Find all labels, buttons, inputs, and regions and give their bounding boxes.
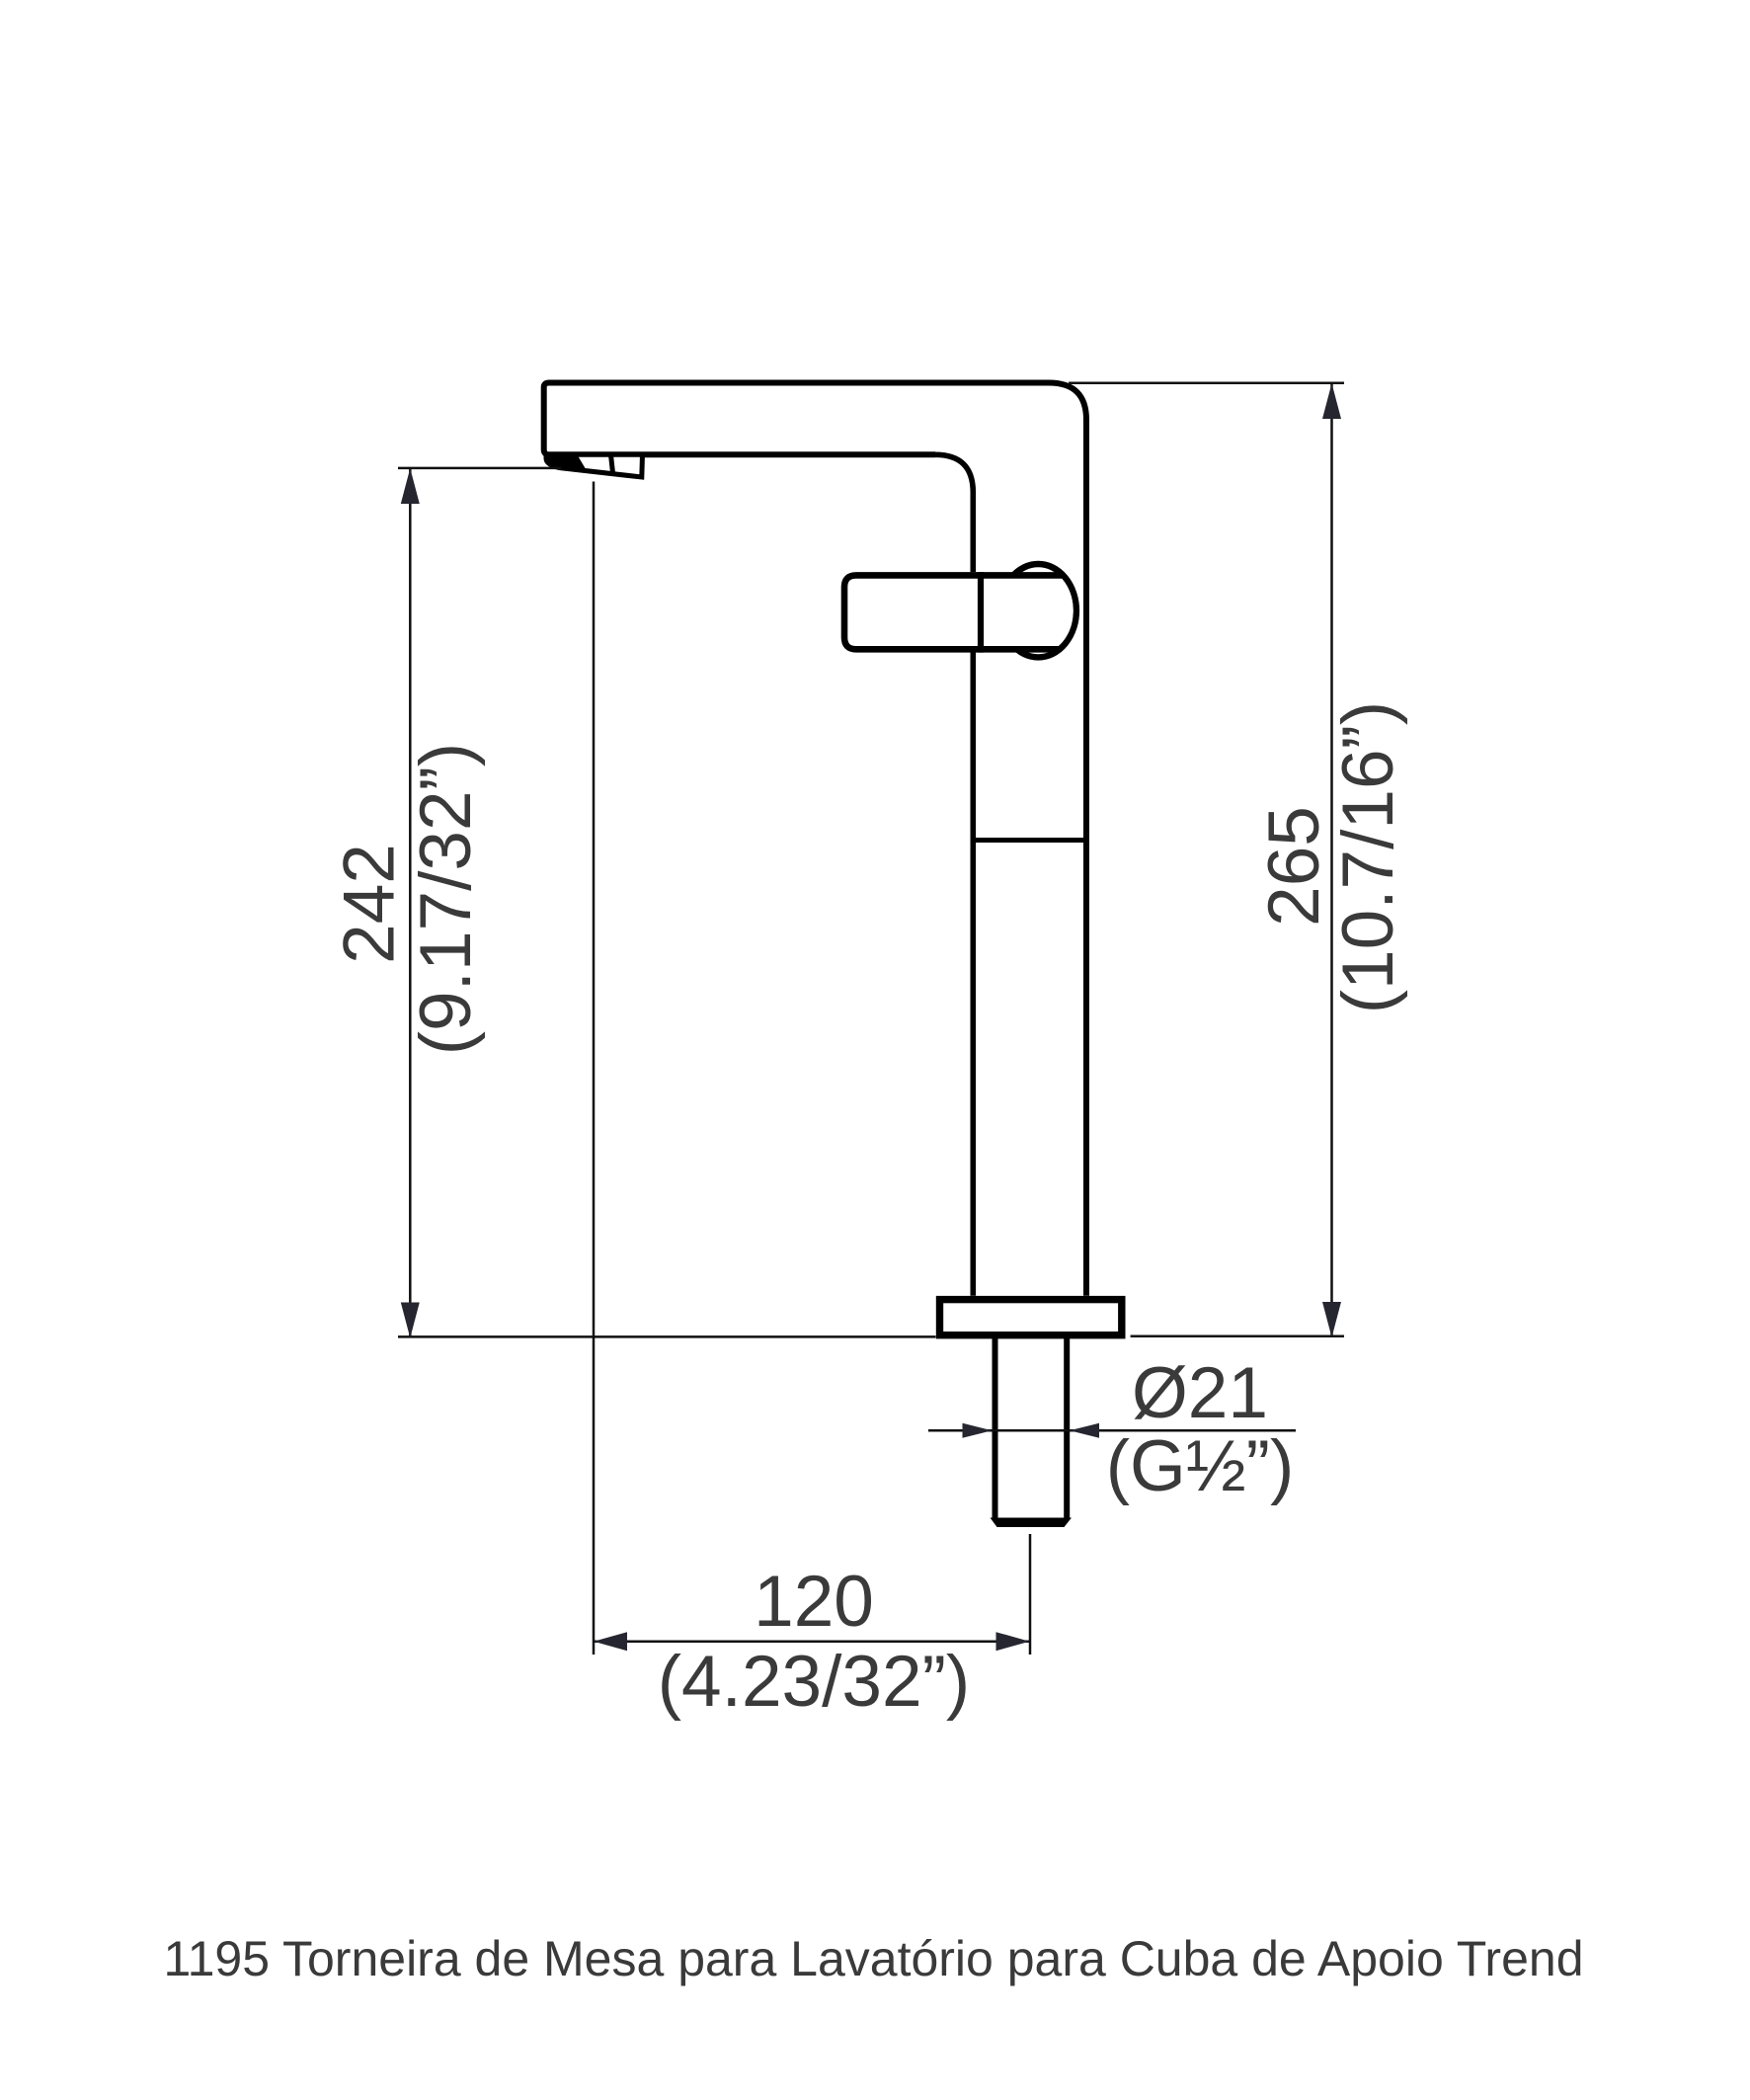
threaded shank pipe bottom [991,1518,1073,1528]
dimension line 242 [409,468,412,1338]
arrowhead diameter left [963,1423,993,1438]
threaded shank pipe sides [995,1338,1068,1519]
arrowhead 120 left [594,1632,627,1651]
svg-text:265: 265 [1254,806,1334,927]
arrowhead 242 bottom [401,1303,420,1338]
svg-text:(4.23/32”): (4.23/32”) [658,1642,971,1722]
body joint line [971,838,1089,843]
handle lever white fill [844,575,1074,649]
arrowhead diameter right [1070,1423,1099,1438]
svg-text:Ø21: Ø21 [1132,1353,1268,1433]
svg-text:1195 Torneira de Mesa para Lav: 1195 Torneira de Mesa para Lavatório par… [163,1931,1583,1986]
body left edge below handle [970,653,976,1296]
dimension line 265 [1330,383,1333,1337]
extension line bottom right (counter level) [1131,1334,1344,1337]
extension line bottom left (counter level) [398,1335,936,1338]
extension line top left (spout tip level) [398,467,561,470]
arrowhead 265 bottom [1322,1302,1341,1337]
svg-text:242: 242 [330,844,410,964]
arrowhead 265 top [1322,383,1341,419]
arrowhead 242 top [401,468,420,504]
aerator solid left lump [544,452,587,471]
extension line top right (faucet top level) [1069,381,1344,384]
handle lever [844,575,1064,649]
faucet spout and body outer outline [544,383,1086,1296]
dimension line diameter 21 [928,1429,1296,1432]
dimension line 120 [594,1640,1030,1643]
handle lever inner vertical line [978,572,984,653]
base flange [940,1300,1122,1335]
svg-text:(G½”): (G½”) [1106,1426,1295,1506]
svg-text:(9.17/32”): (9.17/32”) [406,743,486,1056]
faucet spout inner corner into body left edge [935,454,973,572]
handle knob ellipse [1000,564,1076,657]
aerator inner line [611,455,613,473]
extension line 120 left (from aerator) [593,482,596,1656]
svg-text:120: 120 [754,1562,874,1642]
extension line 120 right (pipe centerline) [1029,1534,1032,1655]
aerator outline [546,454,643,477]
svg-text:(10.7/16”): (10.7/16”) [1328,701,1408,1014]
arrowhead 120 right [996,1632,1030,1651]
